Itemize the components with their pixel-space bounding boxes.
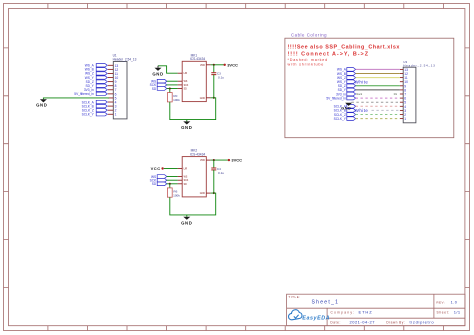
wire cable SCLK_B <box>372 109 400 111</box>
svg-text:1: 1 <box>404 117 406 121</box>
net label SD_Z (cable) <box>338 84 356 88</box>
capacitor C4 0.1u <box>211 160 224 193</box>
power flag 3VCC <box>228 158 242 163</box>
net label SCLK_B <box>82 104 108 108</box>
wire cable SD_Y <box>356 89 400 91</box>
cable coloring annotation box <box>285 32 454 137</box>
net label WS (MK1) <box>151 79 167 83</box>
junction (GND pin) <box>213 192 215 194</box>
connector U3 Header_2.54_13 <box>403 60 435 123</box>
svg-text:VCC: VCC <box>151 166 161 171</box>
svg-text:SCK: SCK <box>184 180 189 182</box>
net label SCLK_Z <box>82 108 108 112</box>
svg-text:SD: SD <box>184 89 188 91</box>
svg-text:1: 1 <box>115 113 117 117</box>
resistor R6 100k <box>167 184 180 198</box>
capacitor C3 0.1u <box>211 65 224 98</box>
net label 5V_filtered_in (cable) <box>326 96 355 100</box>
ground GND (top of MK1) <box>152 66 163 77</box>
net label SCLK_A (cable) <box>334 105 356 109</box>
junction (GND pin) <box>213 97 215 99</box>
wire <box>167 84 178 86</box>
wire cable SCLK_Z <box>356 114 400 116</box>
warning text SSP cabling chart <box>288 45 400 67</box>
junction (SD / R0) <box>169 87 171 89</box>
svg-text:SD: SD <box>184 184 188 186</box>
svg-text:Header_2.54_13: Header_2.54_13 <box>113 58 137 62</box>
net label SCLK_Z (cable) <box>334 113 356 117</box>
net label SD (MK2) <box>152 182 167 186</box>
net label WS_Y <box>85 76 108 80</box>
svg-text:100k: 100k <box>173 98 180 102</box>
svg-text:tizdipietro: tizdipietro <box>410 319 435 324</box>
svg-text:0.1u: 0.1u <box>218 171 224 175</box>
wire <box>167 179 178 181</box>
net label SCK (MK1) <box>150 83 167 87</box>
U3 pins 1-13 <box>400 69 403 118</box>
wire <box>167 183 178 185</box>
svg-text:L/R: L/R <box>184 73 188 75</box>
wire GND return <box>170 98 216 120</box>
junction (VDD) <box>213 159 215 161</box>
svg-text:5V_filtered_in: 5V_filtered_in <box>74 92 94 96</box>
wire <box>167 176 178 178</box>
svg-text:SCLK_Y: SCLK_Y <box>82 113 95 117</box>
svg-text:GND: GND <box>181 125 192 130</box>
svg-text:Header_2.54_13: Header_2.54_13 <box>403 64 435 68</box>
net label WS_Z <box>85 72 107 76</box>
resistor R0 100k <box>167 89 180 103</box>
wire cable SCLK_Y <box>356 118 400 120</box>
net label WS_A (cable) <box>337 68 356 72</box>
svg-text:0.1u: 0.1u <box>218 76 224 80</box>
title block texts <box>288 295 461 324</box>
wire cable WS_B <box>356 73 400 75</box>
label black (3V3_in wire ends) <box>356 93 397 96</box>
net label WS (MK2) <box>151 175 167 179</box>
svg-text:Company:: Company: <box>331 310 356 314</box>
svg-text:3VCC: 3VCC <box>231 158 242 163</box>
svg-text:ETHZ: ETHZ <box>359 310 373 315</box>
connector U1 Header_2.54_13 <box>113 53 137 119</box>
wire cable SCLK_A <box>356 105 400 107</box>
MK1 pins <box>178 65 211 98</box>
net label SCLK_B (cable) <box>334 109 356 113</box>
wire cable WS_A <box>356 68 400 70</box>
svg-text:GND: GND <box>200 193 205 195</box>
net label SD_Z <box>86 80 108 84</box>
net label WS_A <box>85 64 108 68</box>
svg-text:GND: GND <box>36 103 47 108</box>
wire <box>167 80 178 82</box>
svg-text:Date:: Date: <box>330 320 341 324</box>
net label 5V_filtered_in <box>74 92 107 96</box>
wire VDD to power flag <box>211 64 225 66</box>
svg-text:3VCC: 3VCC <box>227 62 238 67</box>
ground GND (cable box) <box>341 103 352 111</box>
svg-text:WS: WS <box>184 177 188 179</box>
U1 pins 1-13 <box>108 65 114 114</box>
svg-text:REV:: REV: <box>436 301 445 305</box>
svg-text:SCLK_Y: SCLK_Y <box>334 117 347 121</box>
svg-text:GND: GND <box>181 221 192 226</box>
wire VCC to L/R <box>164 168 178 170</box>
net label WS_B <box>85 68 108 72</box>
net label WS_Y (cable) <box>337 80 356 84</box>
svg-text:with shrinktube: with shrinktube <box>288 62 325 66</box>
title block <box>287 294 465 326</box>
svg-text:ICS-43434: ICS-43434 <box>190 153 205 157</box>
wire cable SD_Z <box>356 85 400 87</box>
power flag VCC <box>151 166 164 171</box>
net label SD_Y (cable) <box>338 88 356 92</box>
svg-text:EasyEDA: EasyEDA <box>302 315 330 321</box>
wire cable GND <box>352 101 400 103</box>
junction (VDD) <box>213 64 215 66</box>
wire cable 5V_filtered_in <box>356 97 400 99</box>
MK2 pins <box>178 160 211 193</box>
svg-text:!!!! Connect A->Y, B->Z: !!!! Connect A->Y, B->Z <box>288 52 370 58</box>
net label SD_Y <box>85 84 107 88</box>
svg-text:L/R: L/R <box>184 169 188 171</box>
svg-text:SD: SD <box>152 182 157 186</box>
ground GND (below MK2) <box>181 215 192 226</box>
net label SCLK_A <box>82 100 108 104</box>
net label SCK (MK2) <box>150 178 167 182</box>
ground GND (below MK1) <box>181 120 192 131</box>
net label 3V3_in <box>84 88 107 92</box>
svg-text:2021-04-27: 2021-04-27 <box>350 319 376 324</box>
net label SD (MK1) <box>152 87 167 91</box>
wire cable WS_Z <box>356 77 400 79</box>
svg-text:Cable Coloring: Cable Coloring <box>291 32 327 37</box>
microphone MK2 ICS-43434 <box>182 149 206 197</box>
svg-text:1.0: 1.0 <box>451 301 458 305</box>
svg-text:!!!!See also SSP_Cabling_Chart: !!!!See also SSP_Cabling_Chart.xlsx <box>288 45 400 51</box>
svg-text:SD: SD <box>152 87 157 91</box>
svg-text:White: White <box>355 79 369 84</box>
power flag 3VCC <box>224 62 238 67</box>
svg-text:black: black <box>356 93 363 96</box>
svg-text:VDD: VDD <box>200 160 205 162</box>
svg-text:100k: 100k <box>173 193 180 197</box>
net label SCLK_Y <box>82 113 108 117</box>
svg-text:TITLE:: TITLE: <box>288 295 300 299</box>
ground GND (left of U1) <box>36 99 47 107</box>
svg-text:GND: GND <box>341 106 351 111</box>
wire VDD to power flag <box>211 159 229 161</box>
label White (WS_Y wire) <box>355 79 369 84</box>
microphone MK1 ICS-43434 <box>182 53 206 101</box>
net label WS_B (cable) <box>337 72 356 76</box>
svg-text:GND: GND <box>200 98 205 100</box>
wire pin5 to ground <box>43 98 109 99</box>
wire ground to L/R <box>158 66 178 73</box>
wire GND return <box>170 193 216 215</box>
svg-text:SCK: SCK <box>184 85 189 87</box>
svg-text:GND: GND <box>152 71 163 76</box>
net label SCLK_Y (cable) <box>334 117 356 121</box>
svg-text:VDD: VDD <box>200 65 205 67</box>
EasyEDA logo <box>289 310 331 322</box>
svg-text:Sheet_1: Sheet_1 <box>312 300 340 306</box>
label White (SCLK_B wire) <box>355 108 369 113</box>
svg-text:5V_filtered_in: 5V_filtered_in <box>326 96 346 100</box>
svg-text:1/1: 1/1 <box>454 310 461 315</box>
wire <box>167 88 178 90</box>
svg-text:White: White <box>355 108 369 113</box>
net label 3V3_in (cable) <box>336 92 356 96</box>
svg-text:Drawn By:: Drawn By: <box>386 320 405 324</box>
svg-text:Sheet:: Sheet: <box>437 310 450 314</box>
svg-text:ICS-43434: ICS-43434 <box>190 57 205 61</box>
net label WS_Z (cable) <box>337 76 356 80</box>
junction (SD / R6) <box>169 183 171 185</box>
svg-text:WS: WS <box>184 81 188 83</box>
